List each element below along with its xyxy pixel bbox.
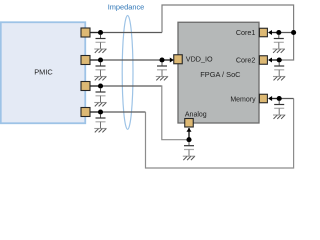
svg-text:Memory: Memory [230, 96, 256, 103]
wire net4 to Memory [272, 98, 294, 100]
wire stub Memory arrow [272, 98, 281, 100]
wire net3 Analog vertical [188, 128, 190, 140]
wire stub pin3 [88, 85, 103, 87]
capacitor C7 with ground [273, 62, 285, 80]
FPGA / SoC U2 [178, 22, 259, 123]
wire stub pin1 [88, 32, 103, 34]
node row3 cap junction [98, 83, 103, 88]
capacitor C2 with ground [94, 62, 106, 80]
wire net1 top loop [162, 5, 294, 33]
svg-text:Impedance: Impedance [108, 3, 145, 12]
pin P3 PMIC [81, 82, 90, 91]
wire net1 row1 PMIC pin1 to corner [90, 32, 163, 34]
svg-text:Core2: Core2 [236, 56, 256, 65]
wire net3 row3 PMIC pin3 to Analog [90, 85, 162, 87]
node Analog cap junction [186, 137, 191, 142]
arrow into VDD_IO [170, 58, 174, 63]
pin P2 PMIC [81, 56, 90, 65]
node net1 T junction [291, 30, 296, 35]
pin Memory [259, 94, 267, 103]
svg-text:FPGA / SoC: FPGA / SoC [200, 70, 241, 79]
svg-text:Core1: Core1 [236, 28, 256, 37]
node Memory cap junction [277, 96, 282, 101]
PMIC U1 [1, 22, 86, 123]
pin Analog [185, 119, 194, 128]
wire net1 down to Core2 row [282, 33, 294, 61]
node Core1 cap junction [276, 30, 281, 35]
wire stub pin4 [88, 111, 103, 113]
wire net2 row2 PMIC pin2 to VDD_IO arrow [90, 59, 171, 61]
wire stub Core2 arrow [272, 59, 281, 61]
node row4 cap junction [98, 109, 103, 114]
wire net1 to Core1 [272, 32, 294, 34]
capacitor C6 with ground [273, 35, 285, 53]
wire net4 row4 PMIC pin4 to bottom loop [90, 111, 146, 113]
arrow into Core1 [268, 30, 272, 35]
pin Core1 [259, 28, 267, 37]
svg-text:VDD_IO: VDD_IO [186, 55, 213, 64]
wire stub Core1 arrow [272, 32, 281, 34]
arrow into Core2 [268, 58, 272, 63]
pin P1 PMIC [81, 28, 90, 37]
wire stub VDD_IO arrow [162, 59, 171, 61]
impedance ellipse [122, 16, 133, 130]
capacitor C3 with ground [94, 88, 106, 106]
arrow into Memory [268, 96, 272, 101]
pin P4 PMIC [81, 108, 90, 117]
svg-text:Analog: Analog [185, 111, 207, 118]
pin Core2 [259, 56, 267, 65]
wire stub pin2 [88, 59, 103, 61]
node VDD_IO cap junction [159, 57, 164, 62]
capacitor C1 with ground [94, 35, 106, 53]
wire stub Analog arrow [188, 128, 190, 141]
capacitor C8 with ground [273, 101, 285, 119]
node row2 cap junction [98, 57, 103, 62]
capacitor C5 with ground [156, 62, 168, 80]
capacitor C4 with ground [94, 114, 106, 132]
wire net3 descent to Analog [162, 85, 187, 139]
node Core2 cap junction [277, 57, 282, 62]
wire net4 bottom loop [146, 99, 294, 169]
capacitor C9 with ground [183, 142, 195, 160]
pin VDD_IO [174, 55, 183, 64]
arrow into Analog [187, 128, 192, 132]
wire net1 Core2 stub [272, 59, 283, 61]
svg-text:PMIC: PMIC [34, 67, 53, 76]
node row1 cap junction [98, 30, 103, 35]
